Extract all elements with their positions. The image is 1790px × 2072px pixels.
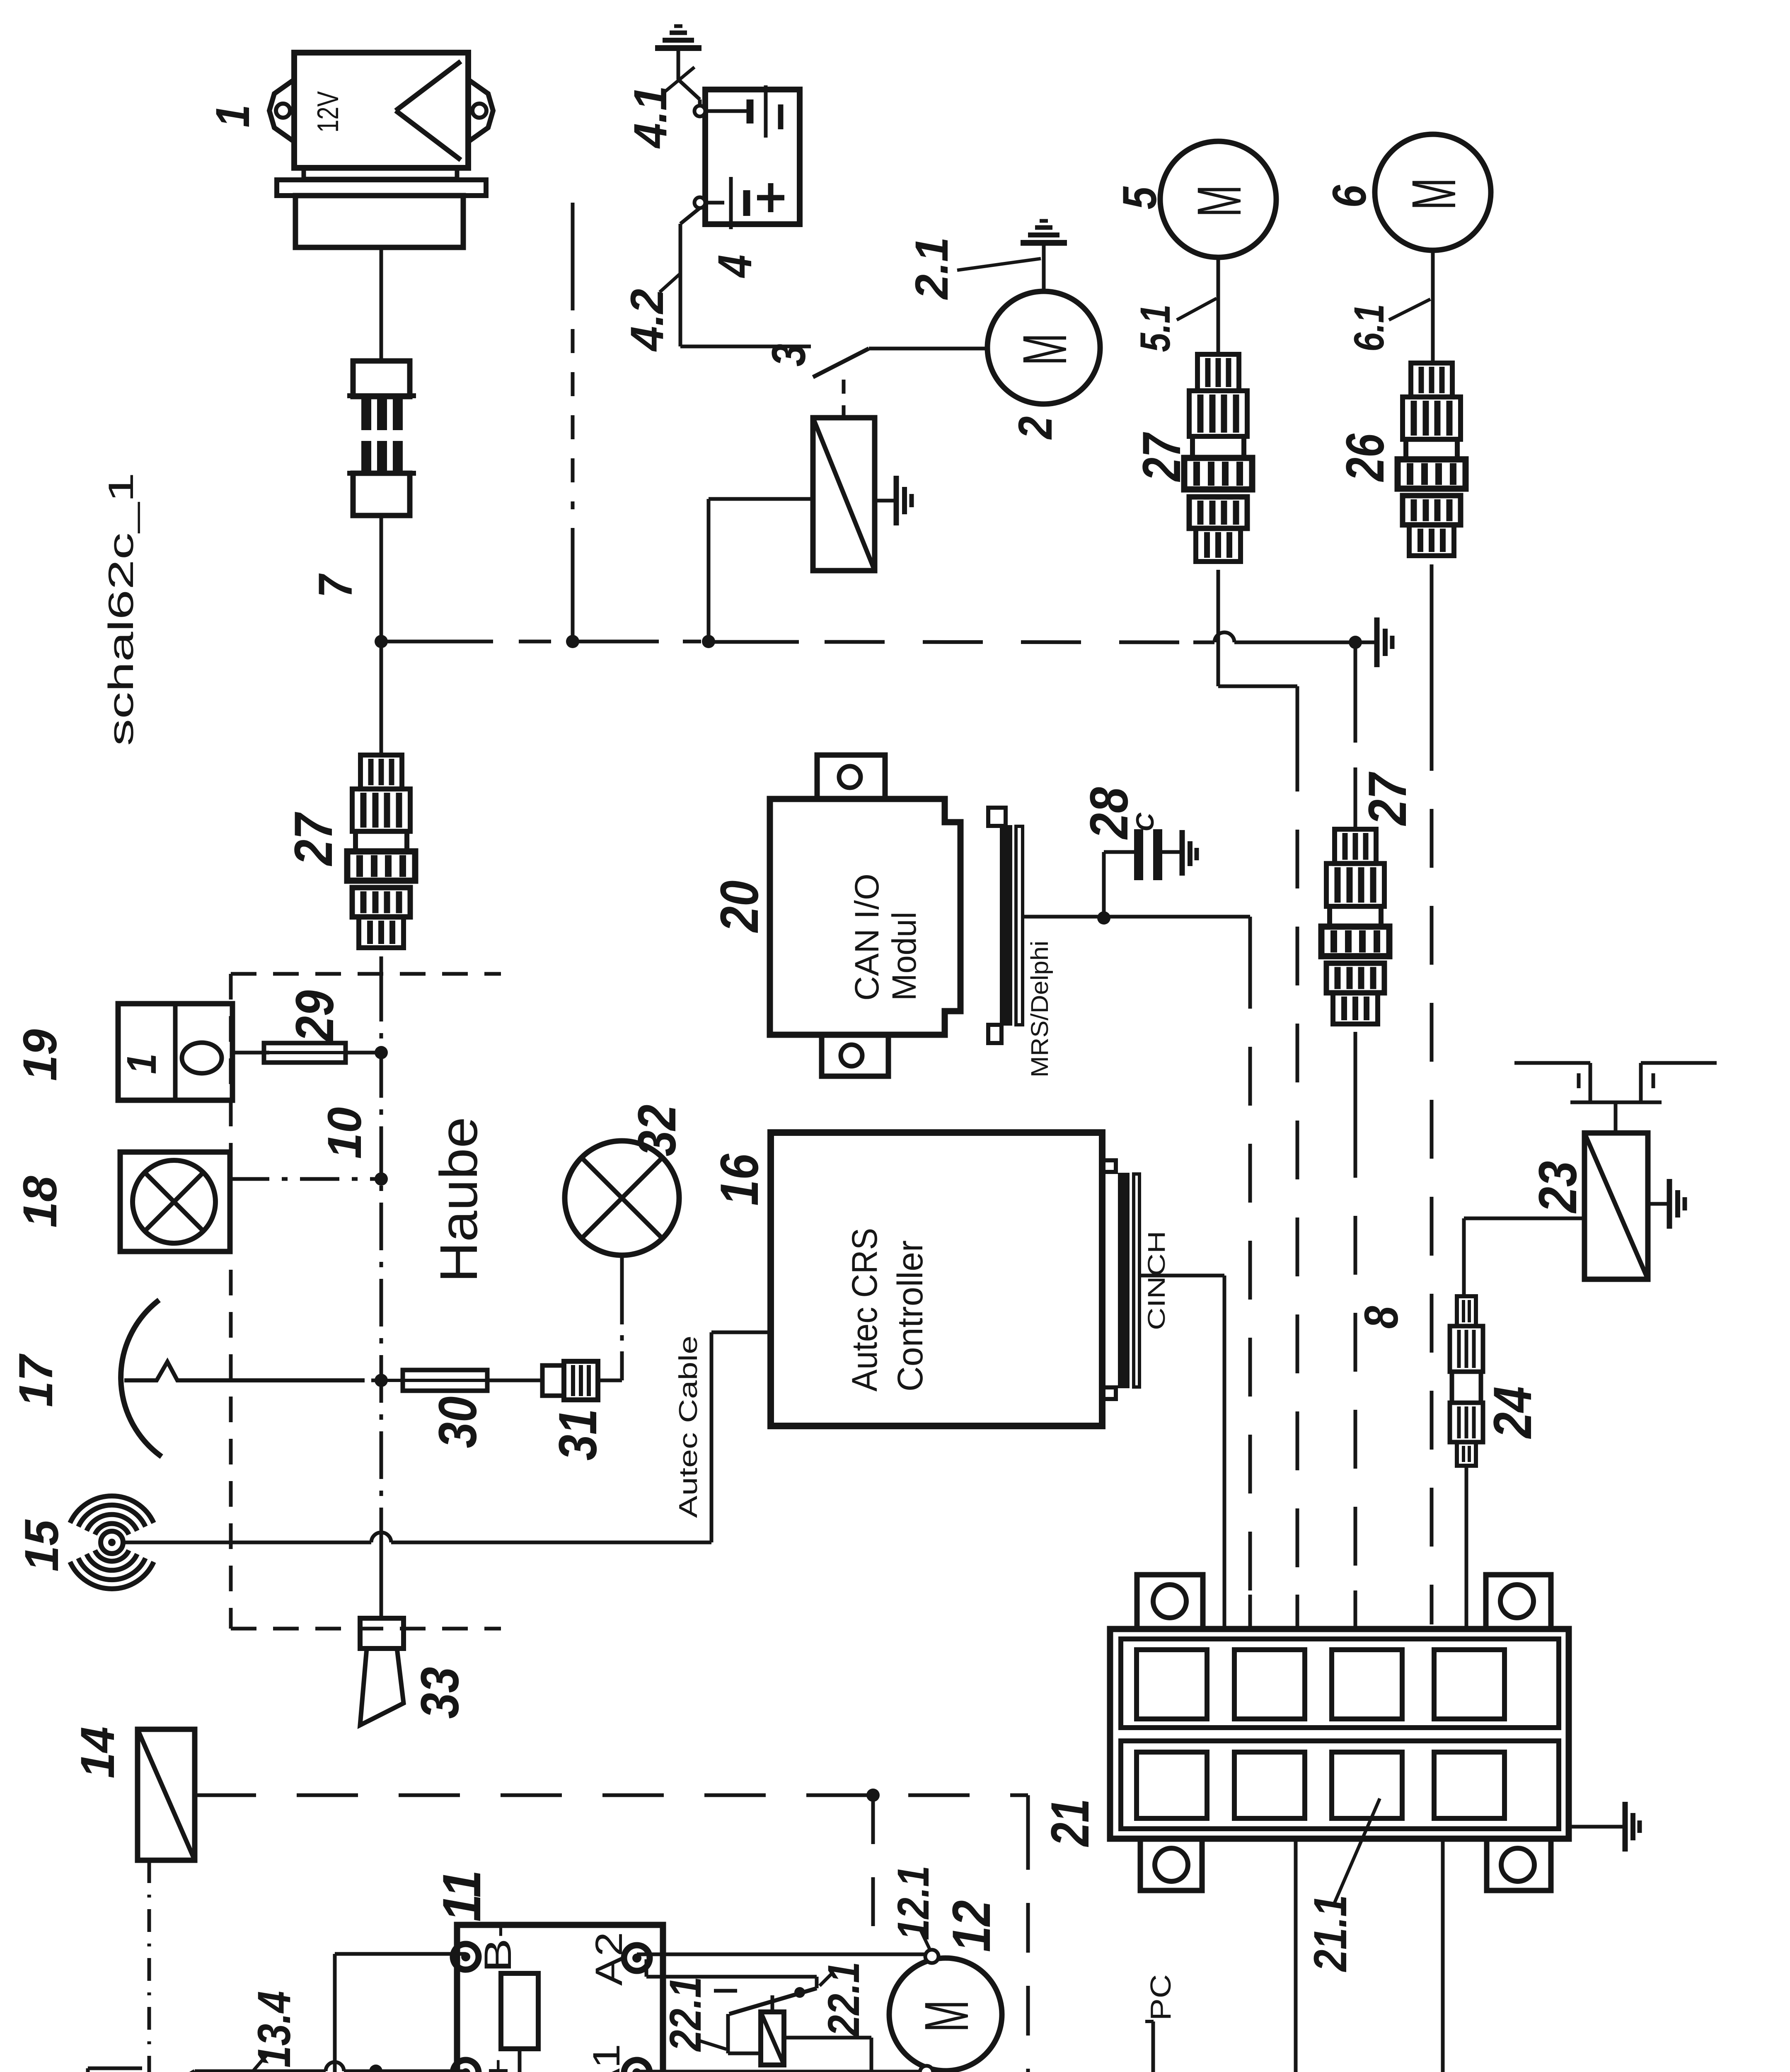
fuse 29 [269, 1051, 346, 1054]
battery 4 body [705, 90, 800, 224]
svg-text:M: M [1399, 178, 1468, 210]
valve 3 solenoid [813, 418, 875, 571]
svg-text:10: 10 [318, 1107, 371, 1159]
ground of valve 23 [1648, 1202, 1667, 1206]
MRS/Delphi connector of module 20 [1000, 825, 1012, 1026]
motor 6 [1375, 134, 1491, 250]
wire 13.2 (B- to B-) [335, 1952, 466, 1956]
connector 24 [1457, 1296, 1476, 1326]
block 21 row housings [1121, 1639, 1559, 1728]
wire relay1 to plug [380, 247, 383, 361]
valve 23 solenoid [1584, 1133, 1648, 1279]
valve 14 solenoid [138, 1729, 195, 1860]
ground of valve 3 [875, 499, 894, 503]
dashed line 14-rail down [871, 1795, 875, 1936]
fuse 30 [381, 1379, 487, 1382]
battery 4 internals plus cell [705, 201, 724, 205]
wire horn to controller (Autec cable) [123, 1541, 371, 1544]
wire from generator+ to switch [88, 2067, 142, 2070]
svg-text:5.1: 5.1 [1132, 305, 1179, 352]
wire connector 24 to distributor 21 [1465, 1466, 1468, 1629]
svg-text:11: 11 [431, 1870, 492, 1922]
svg-text:Controller: Controller [890, 1240, 930, 1392]
svg-text:M: M [1184, 185, 1254, 217]
wire 4.2 to switch of valve 3 [680, 208, 700, 224]
svg-text:Haube: Haube [429, 1117, 489, 1283]
Haube boundary dashed bottom [231, 1627, 501, 1631]
node fuse 30 [375, 1374, 388, 1387]
svg-text:3: 3 [762, 344, 815, 367]
connector 27 (to Haube) [360, 755, 402, 789]
bus wire 10 vertical [380, 974, 383, 1533]
wire valve 3 to junction [709, 497, 813, 501]
svg-text:26: 26 [1335, 433, 1395, 482]
svg-text:CAN I/O: CAN I/O [848, 874, 886, 1001]
wire blade to relay 22 upper [726, 2014, 730, 2053]
wire switch to B+ (13.4) [195, 2070, 326, 2072]
svg-text:Modul: Modul [885, 912, 923, 1001]
svg-text:27: 27 [283, 812, 343, 867]
wire 5.1 [1217, 257, 1220, 354]
node fuse 29 [375, 1046, 388, 1059]
node lamp 18 [375, 1172, 388, 1186]
CINCH connector of controller [1118, 1173, 1130, 1388]
wire connector 27 down and over to rail [1217, 570, 1220, 686]
svg-text:Autec CRS: Autec CRS [845, 1228, 885, 1392]
connector plug male (pin housing) [353, 361, 410, 397]
svg-text:12.1: 12.1 [888, 1866, 938, 1940]
node rail 14 [866, 1789, 880, 1802]
svg-text:23: 23 [1527, 1161, 1588, 1214]
motor 12 upper terminal 12.1 top [925, 1950, 939, 1963]
ground above battery [655, 45, 701, 51]
svg-text:2.1: 2.1 [906, 237, 958, 300]
connector 27 below motor 5 [1197, 354, 1239, 391]
termination resistor upper [501, 1973, 538, 2049]
terminal B- upper [453, 1944, 479, 1970]
horn 15 [101, 1531, 123, 1554]
buzzer 33 [360, 1618, 404, 1648]
wire battery+ to junction (4.2 feed) [571, 203, 575, 310]
wire module 20 branch down to distributor 21 [1248, 917, 1252, 950]
lamp 32 [565, 1141, 679, 1255]
wire connector 31 to lamp 32 [598, 1379, 622, 1382]
motor 12 upper terminal 12.1 bottom [920, 2066, 933, 2072]
svg-text:B-: B- [477, 1921, 519, 1973]
terminal A2 upper [624, 1945, 650, 1971]
CAN I/O Modul box (item 20) [770, 799, 960, 1035]
wire block 21 to connector 25 right [1441, 1839, 1445, 2072]
wire to Haube [380, 956, 383, 974]
wire relay 22 to A1 upper [784, 2036, 871, 2040]
node 13.4 branch [369, 2065, 382, 2072]
distributor block 21 outer [1110, 1629, 1569, 1839]
svg-text:M: M [1010, 333, 1079, 366]
block 21 mounting tab top-left [1137, 1575, 1203, 1629]
wire A1 upper to motor 12 [637, 2070, 921, 2072]
svg-text:12V: 12V [312, 91, 345, 133]
capacitor 28 [1102, 852, 1106, 917]
relay 1 right mounting ear [468, 80, 493, 142]
dashed line down to rail 9 [1026, 1820, 1030, 2072]
motor 12 upper [889, 1958, 1002, 2071]
block 21 contact squares [1137, 1650, 1207, 1719]
module 20 mounting tab bottom [822, 1035, 888, 1076]
svg-text:CINCH: CINCH [1143, 1231, 1170, 1330]
switch blade 13.4 [145, 2071, 195, 2072]
svg-text:4.2: 4.2 [621, 289, 673, 352]
svg-text:30: 30 [427, 1397, 488, 1448]
block 21 mounting tab bottom-left [1140, 1839, 1202, 1890]
connector 26 below motor 6 [1411, 363, 1452, 397]
wire connector 26 down to distributor [1430, 564, 1434, 712]
wire lamp 18 to bus 10 [230, 1177, 381, 1181]
svg-text:16: 16 [709, 1154, 769, 1206]
svg-text:24: 24 [1482, 1387, 1543, 1440]
wire hop over connector-27 lead [1214, 632, 1234, 642]
battery terminal 4.2 [694, 197, 705, 208]
antenna 17 [121, 1300, 162, 1457]
switch blade (valve 3 actuated) [813, 349, 869, 377]
relay 22 upper [761, 2012, 784, 2065]
svg-text:A1: A1 [585, 2044, 628, 2072]
wire PC connector [1151, 2021, 1155, 2072]
svg-text:21.1: 21.1 [1304, 1895, 1356, 1973]
svg-text:13.4: 13.4 [248, 1991, 300, 2068]
svg-text:21: 21 [1040, 1799, 1100, 1847]
ground above motor 2 [1021, 240, 1067, 246]
connector plug female (socket housing) [361, 441, 371, 473]
svg-text:schal62c_1: schal62c_1 [102, 472, 141, 746]
svg-text:8: 8 [1355, 1306, 1408, 1329]
node junction wire 7 / battery / valve 3 [375, 635, 388, 648]
svg-text:31: 31 [547, 1409, 608, 1461]
svg-text:MRS/Delphi: MRS/Delphi [1026, 941, 1053, 1077]
svg-text:29: 29 [284, 990, 345, 1043]
switch 19 (1/0) [118, 1004, 232, 1100]
battery 4 internals minus cell [705, 109, 750, 113]
ground at junction line end [1355, 641, 1374, 644]
disconnect point above valve 23 [1514, 1061, 1590, 1065]
svg-text:M: M [912, 2000, 981, 2032]
svg-text:5: 5 [1113, 186, 1166, 210]
wire junction line [381, 640, 493, 644]
svg-text:18: 18 [14, 1176, 67, 1227]
actuator dash link valve14-switch [148, 1860, 151, 2072]
wire connector 27 to distributor 21 [1354, 1032, 1357, 1119]
wire module 20 to distributor [1023, 915, 1250, 919]
connector 27 (middle right) [1335, 829, 1376, 864]
svg-text:15: 15 [15, 1519, 68, 1572]
wire fuse 29 to bus 10 [346, 1051, 381, 1055]
terminal B+ upper [453, 2060, 479, 2072]
wire junction branch down [1354, 642, 1357, 709]
wire junction down to connector 27 left [380, 641, 383, 755]
svg-text:4.1: 4.1 [624, 86, 676, 149]
svg-text:33: 33 [409, 1667, 470, 1719]
svg-text:22.1: 22.1 [818, 1962, 868, 2037]
wire 4.1 to ground [698, 99, 702, 106]
svg-text:A2: A2 [588, 1932, 630, 1986]
switch blade 22.1 upper [729, 1988, 817, 2014]
relay 1 left mounting ear [269, 80, 294, 142]
relay branch upper [645, 1959, 648, 1977]
svg-text:27: 27 [1131, 432, 1192, 482]
signal lamp 18 [120, 1152, 230, 1251]
actuator dash link switch-valve3 [842, 380, 846, 416]
relay 1 envelope mark [396, 61, 461, 111]
wire CINCH to distributor 21 [1139, 1274, 1224, 1278]
svg-text:28: 28 [1079, 787, 1139, 840]
module 20 mounting tab top [817, 755, 885, 799]
wire 13.4 down to lower B+ [372, 2071, 376, 2072]
ground of block 21 [1569, 1825, 1623, 1829]
wire fuse 30 to connector 31 [487, 1379, 542, 1382]
svg-text:PC: PC [1144, 1974, 1177, 2021]
Haube boundary dashed top [231, 972, 501, 976]
svg-text:32: 32 [626, 1105, 687, 1157]
svg-text:14: 14 [71, 1727, 124, 1779]
dashed rail from valve 14 [195, 1794, 1017, 1797]
svg-text:1: 1 [206, 105, 259, 128]
wire 6.1 [1431, 250, 1435, 363]
relay K1 "12V" (item 1) body [294, 53, 468, 168]
svg-text:B+: B+ [477, 2058, 519, 2072]
svg-text:2: 2 [1009, 416, 1062, 440]
wire generator+ up [86, 2068, 90, 2072]
svg-text:4: 4 [709, 255, 762, 278]
motor 5 [1160, 141, 1276, 257]
node capacitor 28 branch [1097, 911, 1110, 925]
Autec CRS Controller box (item 16) [1102, 1160, 1116, 1172]
wire A2 upper to motor 12 [637, 1953, 926, 1956]
block 21 mounting tab top-right [1486, 1575, 1551, 1629]
wire switch 19 to fuse 29 [232, 1051, 269, 1055]
wire switch to motor 2 [869, 347, 988, 351]
svg-text:12: 12 [941, 1900, 1001, 1952]
CAN-BUS box 11 upper [457, 1925, 663, 2072]
svg-text:20: 20 [709, 881, 769, 934]
terminal A1 upper [624, 2060, 650, 2072]
svg-text:19: 19 [14, 1029, 67, 1081]
svg-text:6.1: 6.1 [1345, 304, 1393, 352]
motor 2 [987, 291, 1100, 404]
svg-text:C: C [1131, 812, 1159, 832]
svg-text:Autec Cable: Autec Cable [674, 1336, 703, 1518]
connector 31 [542, 1365, 564, 1396]
ground of capacitor 28 [1180, 830, 1185, 876]
svg-text:27: 27 [1357, 772, 1417, 827]
Haube boundary dashed left [229, 974, 233, 1629]
block 21 mounting tab bottom-right [1487, 1839, 1551, 1890]
svg-text:6: 6 [1323, 185, 1376, 208]
wire motor 2 to ground (2.1) [1042, 244, 1046, 291]
relay 1 socket [304, 168, 457, 179]
wire valve 23 to connector 24 [1464, 1217, 1584, 1220]
svg-text:7: 7 [309, 573, 362, 598]
wire block 21 to connector 26 bottom [1294, 1839, 1298, 2072]
battery terminal 4.1 [694, 106, 705, 116]
svg-text:17: 17 [10, 1353, 63, 1407]
svg-text:1: 1 [119, 1053, 165, 1074]
wire 7 [380, 516, 383, 641]
